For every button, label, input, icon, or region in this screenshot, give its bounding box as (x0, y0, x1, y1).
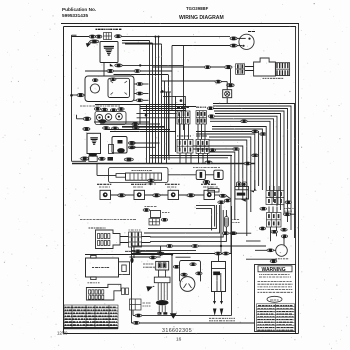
riser wire x158.5 (158, 37, 160, 164)
igniter column stem (159, 270, 166, 277)
igniter harness dark capsule (156, 300, 169, 305)
wire from left rail to surface-light connector (72, 36, 94, 38)
wire y251.3 to riser x160.5 (125, 250, 161, 252)
riser wire x166.5 (166, 92, 168, 164)
oven terminal strip (126, 173, 162, 180)
striped resistor component (224, 217, 228, 228)
bake burner bottom bump (91, 277, 96, 280)
fan lead lower into circle (237, 45, 242, 47)
bus wire L15 (193, 146, 243, 200)
bus wire L11 (196, 132, 259, 187)
warning color-code table (257, 304, 295, 331)
connector door lock switch lead (225, 65, 233, 68)
riser wire x175.5 (175, 96, 177, 152)
label TO LOWER OVEN (209, 318, 235, 321)
capsule below grid E (260, 207, 267, 210)
wire y155.5 (150, 155, 232, 157)
element lead arrowheads (213, 301, 223, 304)
left rail top corner stub (72, 34, 77, 36)
broil element box (212, 262, 226, 292)
connector left of oven light (215, 80, 221, 83)
stub wires below block C (180, 153, 191, 164)
door latch assembly outline (85, 76, 134, 102)
wire door lock tee down to oven light (230, 69, 232, 83)
junction dot above fan motor (283, 236, 285, 238)
capsule on bottom wire y315.4 (135, 314, 142, 317)
wire into grid F area (246, 240, 261, 242)
vertical x172 down to bottom wire (171, 255, 173, 316)
capsule on extension wire (134, 250, 141, 253)
relay pair bodies (196, 170, 223, 179)
connector right of block B row1 (207, 107, 213, 110)
table bottom dark band (64, 327, 118, 329)
ground flag at igniter collar (146, 286, 153, 291)
feed wire from control block y44 (125, 43, 162, 45)
wire y246 (132, 245, 267, 247)
bus wire L7 (210, 119, 274, 202)
stub wires into grid F (269, 207, 277, 213)
connector under clock (98, 157, 105, 160)
riser x172 from fan wire down to center band (171, 46, 173, 111)
stub wires into grid E (270, 186, 280, 191)
relay box right lead 1 (128, 141, 135, 144)
dark blob bottom of cluster (99, 119, 107, 123)
lower fan motor circle (276, 245, 288, 257)
capsule under resistor b (230, 232, 237, 235)
junction dot on left rail (70, 94, 73, 97)
clock internal label block (90, 138, 98, 144)
junction dot x221 y246 (220, 245, 222, 247)
label terminal strip (132, 170, 152, 172)
capsule below igniter left (224, 199, 230, 202)
riser wire x168.5 (168, 75, 170, 156)
band wire y122 (94, 121, 150, 123)
fan lead connector lower (230, 44, 237, 47)
connector on bus y163.5 (205, 161, 212, 164)
wire grid F to right frame (291, 213, 296, 215)
wire spark module to latch assembly (103, 63, 105, 76)
riser wire x152.5 (152, 43, 154, 164)
wire riser to oven light (165, 80, 216, 82)
junction under control box (109, 157, 112, 160)
to-lower-oven arrows (213, 309, 223, 316)
bus wire L5 (215, 114, 281, 211)
junction dot middle band (145, 114, 148, 117)
connector block D (196, 139, 209, 153)
wire burner3-4 (179, 194, 205, 196)
connector grid E (right) (266, 191, 284, 205)
igniter harness lower lines (159, 305, 165, 312)
capsule above switch 2 (101, 108, 107, 111)
footer part number and page (57, 328, 192, 343)
left vertical rail wire (71, 35, 73, 161)
capsule below grid F right (281, 228, 287, 231)
bake burner box (86, 258, 119, 277)
svg-text:316602305: 316602305 (162, 328, 192, 334)
capsule mid door lock wire (204, 66, 210, 69)
capsule left of small box (143, 209, 149, 212)
oven control body (96, 230, 121, 249)
riser wire x155.5 (155, 37, 157, 164)
capsule feeding broil element b (222, 252, 229, 255)
capsule right of grid E (285, 201, 291, 204)
bus wire L16 (193, 149, 239, 190)
short tie across risers (160, 91, 171, 93)
relay box leads to risers (130, 143, 160, 147)
band wire y129.5 (105, 129, 170, 131)
bus wire L12 (196, 134, 255, 191)
latch switch corner contacts (111, 81, 128, 95)
oven control pin slots (98, 234, 110, 246)
label right of grid H (143, 303, 151, 306)
riser x160.5 upper stub (160, 246, 162, 256)
label surface burner 1 (97, 183, 111, 185)
spark module box (100, 42, 118, 63)
stub wires block B to D (198, 124, 205, 139)
band wire y108.5 (140, 108, 186, 110)
grid G leads right (142, 237, 151, 243)
wire spark module row toward right risers (122, 64, 183, 66)
dark piece right of clock tab (108, 157, 114, 161)
capsule left of motor assembly (173, 265, 179, 268)
connector second control row (90, 40, 99, 43)
latch switch square (108, 78, 130, 97)
bottom bus wire y323 (132, 322, 296, 324)
bake burner top bump (91, 255, 96, 258)
grid H lead down (132, 310, 134, 315)
vertical x221 down (220, 204, 222, 255)
connector right of block B row2 (208, 115, 214, 118)
capsule above fan motor (281, 235, 287, 238)
oven control leads right (120, 237, 129, 243)
capsule at clock box lower-left (81, 157, 89, 161)
connector on top control row (right) (115, 35, 122, 38)
element internal line (212, 268, 226, 270)
connector grid G (lower left) (129, 232, 142, 247)
svg-text:5995331435: 5995331435 (62, 13, 88, 18)
bus wire L17 (209, 152, 235, 220)
small grid below box (149, 219, 160, 226)
band wire y131.5 (110, 131, 176, 133)
igniter column collar (154, 277, 170, 283)
connector latch lead 1 (136, 83, 143, 86)
bus wire L2 (213, 106, 291, 230)
fan winding dot upper (248, 38, 250, 40)
stub into broil element (218, 255, 220, 262)
switch circle 2 (105, 114, 112, 121)
surface burner switch 3 (168, 190, 179, 199)
capsule on bus wire (252, 130, 258, 133)
capsule above warning box (270, 260, 277, 263)
connector on latch switch top (110, 78, 116, 81)
door lock switch terminal comb (277, 63, 288, 75)
page frame inner top (64, 26, 297, 28)
capsule on bus wire 4 (241, 120, 247, 123)
bake igniter terminals (238, 183, 241, 186)
wire to lower fan motor (255, 249, 276, 251)
wire left rail to latch assembly (72, 94, 86, 96)
svg-text:WARNING: WARNING (262, 267, 286, 273)
switch circle 3 (116, 113, 123, 120)
capsule on bus wire 5 (233, 148, 239, 151)
capsule row2 b (103, 127, 110, 130)
svg-text:WIRING DIAGRAM: WIRING DIAGRAM (179, 15, 224, 21)
oval stamp text (270, 299, 279, 301)
stub below grid F b (276, 227, 278, 236)
wire between relay pair (205, 174, 213, 176)
svg-text:12/99: 12/99 (57, 331, 68, 336)
connector mid latch wire (134, 70, 140, 73)
header text: publication no / model / title (62, 6, 224, 21)
wire y257.2 stub (176, 256, 191, 258)
wire strip box to relay 1 (168, 174, 196, 176)
band wire y117.8 (137, 117, 177, 119)
band wire y106.5 (140, 106, 196, 108)
bus wire L8 (210, 121, 270, 198)
riser wire x179.5 (179, 114, 181, 149)
bus wire L18 (209, 155, 231, 253)
door lock plug pins to switch body (245, 67, 254, 71)
page frame outer top (61, 23, 299, 25)
connector above latch assembly (107, 69, 114, 72)
capsule between burners 1-2 (118, 194, 126, 197)
junction dots on top row wire (154, 36, 156, 38)
warning body text lines (258, 282, 293, 293)
svg-text:Publication No.: Publication No. (62, 7, 96, 12)
label surface burner 3 (165, 183, 180, 185)
wire burner4 right (215, 194, 223, 196)
capsule row2 a (83, 127, 90, 130)
wire to fan motor bottom (246, 258, 277, 260)
relay box dark blob top (118, 140, 123, 144)
capsule row2 d (132, 123, 139, 126)
capsule between burners 3-4 (187, 194, 195, 197)
connector on latch assembly left wire (77, 93, 84, 96)
fan winding dot lower (242, 45, 244, 47)
labels above surface switches (80, 105, 120, 107)
capsule on bottom bus (133, 321, 140, 324)
latch assembly right lead 3 (134, 99, 149, 101)
wire into terminal strip (97, 164, 116, 176)
label small cluster (162, 212, 169, 214)
turn-up wire 1 (148, 205, 216, 229)
relay box right lead 2 (128, 146, 135, 149)
relay box dark blob bottom (117, 148, 125, 153)
label left of igniter column (143, 264, 155, 267)
stub wires block A to C (180, 124, 189, 139)
wire to chassis ground flag (88, 42, 90, 45)
bus wire L1 (213, 104, 295, 239)
element dark band (213, 272, 220, 276)
riser wire x169 (168, 92, 170, 160)
switch circle 1 (96, 114, 102, 120)
relay pair dark cores (200, 172, 203, 178)
connector on top control row (left a) (89, 35, 95, 38)
wire into oven igniter (226, 196, 230, 199)
feed stub to surface switches (77, 115, 84, 119)
stub y252.8 (161, 252, 165, 254)
door lock switch body (254, 58, 276, 76)
turn-up wire 3 (150, 210, 223, 237)
warning title (258, 266, 292, 273)
junction dot above block A (180, 99, 183, 102)
feed wire from control block y43 (122, 42, 153, 44)
capsule inside motor assembly top (190, 263, 196, 266)
wire burner1-2 (111, 194, 135, 196)
surface burner switch 1 (100, 190, 111, 199)
capsule below grid F mid (271, 230, 278, 233)
bus wire L3 (213, 109, 288, 223)
wire from resistor capsule right (229, 232, 251, 234)
label surface burner 2 (131, 183, 146, 185)
wire oven light down to band (226, 98, 228, 104)
bottom wire y315.4 (133, 314, 232, 316)
clock bottom dark connector (89, 153, 97, 157)
capsule x160 y253.6 (157, 252, 164, 255)
terminal strip outline box (109, 168, 169, 183)
broil burner pin slots (89, 290, 104, 299)
capsule on wire y246 left (166, 245, 173, 248)
wire latch row 2 (114, 74, 169, 76)
stub to light drop (221, 81, 227, 83)
motor brush marks (184, 284, 192, 289)
bake burner right extension (119, 262, 130, 275)
surface burner 2 contact (137, 192, 142, 197)
control relay box (112, 137, 127, 154)
clock box (87, 133, 101, 153)
wire junction to fan motor top (283, 239, 285, 246)
note sentence line (80, 219, 136, 221)
bus wire L4 (214, 111, 284, 214)
bus wire L14 (209, 140, 247, 236)
feed wire from control block y40.5 (122, 40, 150, 42)
junction dot riser bundle (161, 90, 164, 93)
corner wire riser to block area (163, 96, 185, 110)
label FAN (248, 31, 255, 33)
capsule row2 e (132, 126, 139, 129)
surface burner 1 contact (103, 192, 108, 197)
label door lock switch (263, 77, 284, 79)
small rect below relays (208, 189, 219, 193)
relay box left coil rect (109, 145, 114, 154)
broil burner label (88, 282, 100, 284)
label grid block G (129, 229, 141, 231)
page frame outer right (298, 24, 300, 334)
capsule above switch 3 (118, 108, 124, 111)
label above connector block A (177, 107, 189, 109)
band wire y124 (100, 123, 160, 125)
oven light connector (227, 84, 235, 87)
spark module internal label block (104, 47, 114, 56)
wire burner2-3 (145, 194, 169, 196)
band wire y113.6 (136, 113, 176, 115)
latch assembly right lead 1 (134, 83, 149, 85)
surface burner switch 2 (134, 190, 145, 199)
connector latch lead 3 (136, 99, 143, 102)
surface burner switch 4 (204, 190, 215, 199)
connector right of block D (209, 149, 215, 152)
warning table header (258, 305, 293, 307)
door lock plug block (236, 64, 245, 75)
riser wire x149.5 (149, 41, 151, 164)
capsule below relay 1 (203, 180, 210, 183)
short drop x140 (139, 105, 141, 125)
riser wire x161.5 (161, 44, 163, 164)
latch motor circle (90, 84, 99, 93)
motor assembly outline (180, 261, 201, 282)
igniter arrow lead right (250, 189, 258, 193)
capsule top of x221 vertical (218, 201, 225, 204)
connector grid F (right) (267, 213, 282, 228)
junction x172 y254.5 (171, 253, 173, 255)
extension inner rect (122, 265, 126, 272)
riser wire x164.5 (164, 81, 166, 160)
thick bus wire y163.5 (72, 163, 255, 165)
latch assembly right lead 2 (134, 93, 149, 95)
vertical x134 stub (133, 247, 135, 258)
oven light box (223, 90, 232, 98)
wire loop a (196, 206, 215, 227)
fan lead connector upper (230, 37, 237, 40)
bottom-left wire code table (64, 305, 118, 329)
label above small cluster (145, 206, 157, 208)
stub wires below block D (199, 153, 208, 163)
bus wire L9 (212, 127, 266, 191)
long vertical x231.5 (231, 206, 233, 316)
label TO terminal strip (193, 167, 220, 169)
wire down to igniter arrow (254, 180, 256, 190)
band wire y104.5 (95, 104, 186, 106)
wire y253.5 (132, 253, 232, 255)
wire loop b (196, 209, 212, 231)
bake burner label (92, 267, 109, 269)
capsule row2 c (112, 127, 119, 130)
igniter column terminals (158, 263, 161, 268)
svg-text:TGO398BF: TGO398BF (186, 6, 209, 11)
label above connector block B (196, 106, 206, 108)
connector right on bus y163.5 (244, 162, 251, 165)
surface burner 4 contact (207, 192, 212, 197)
connector block A (177, 111, 190, 124)
capsule right of grid F (283, 213, 290, 216)
oven light lamp symbol (225, 91, 230, 96)
connector block C (177, 139, 193, 153)
surface switch feed connector (83, 117, 91, 121)
arrow at x172 bottom (170, 313, 177, 319)
connector wedge at spark module output (110, 64, 114, 67)
band wire y110.5 (143, 110, 186, 112)
label oven control (89, 227, 106, 229)
capsule left of lower fan motor (267, 249, 274, 252)
capsule above motor right (196, 272, 202, 275)
wire top row to convection fan (122, 36, 231, 38)
connector latch lead 2 (136, 92, 143, 95)
wire y157.8 (150, 157, 228, 159)
wire riser to fan lower lead (172, 45, 230, 47)
capsule above motor left (181, 273, 187, 276)
drop into oven light (226, 82, 228, 90)
small box cluster lower-mid (151, 211, 161, 218)
left rail bottom corner to clock box (72, 160, 87, 162)
lower oven motor circle (180, 277, 195, 292)
connector on top control row (left b) (96, 35, 102, 38)
page frame inner right (295, 27, 297, 334)
element internal wires (217, 273, 221, 292)
flag stub (153, 285, 154, 287)
broil burner body (86, 284, 121, 300)
turn-up wire 4 (150, 210, 226, 241)
ground dot under strip (149, 183, 151, 185)
